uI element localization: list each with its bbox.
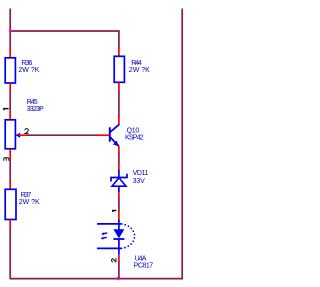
wire: top horizontal from junction to right column (10, 30, 120, 32)
transistor Q10 base bar (109, 127, 111, 141)
zener diode VD11 pin 1 (red) (118, 164, 120, 171)
node junction dot top-left (9, 29, 12, 32)
wire: R45 to R37 (9, 160, 11, 184)
svg-text:2W ?K: 2W ?K (18, 67, 39, 74)
svg-text:2W ?K: 2W ?K (19, 199, 40, 206)
zener diode VD11 top lead (blue) (118, 170, 120, 178)
wire: Q10 emitter to VD11 (118, 153, 120, 164)
optocoupler U4A LED triangle (filled) (113, 229, 124, 238)
wire: left rail bottom vertical (9, 227, 11, 279)
svg-text:KSP42: KSP42 (125, 135, 144, 142)
potentiometer R45 pin 3 (red) (9, 149, 11, 160)
optocoupler U4A pin 2 (red) (118, 255, 120, 262)
optocoupler U4A right arc (121, 224, 135, 249)
svg-text:Q10: Q10 (127, 127, 140, 134)
optocoupler U4A pin number 2 (111, 258, 115, 262)
wire: R44 to Q10 collector (118, 90, 120, 117)
zener diode VD11 pin 2 (red) (118, 192, 120, 199)
svg-text:VD11: VD11 (133, 170, 149, 177)
optocoupler U4A emission arrow lower (103, 236, 107, 239)
svg-text:2W ?K: 2W ?K (129, 67, 150, 74)
potentiometer R45 pin 2 wire (red, from arrow) (19, 134, 28, 136)
transistor Q10 collector pin (red) (118, 117, 120, 125)
svg-text:33V: 33V (133, 178, 145, 185)
optocoupler U4A pin number 1 (112, 211, 116, 213)
wire: VD11 to opto LED (118, 199, 120, 212)
svg-text:U4A: U4A (135, 255, 147, 262)
node junction dot bottom (opto pin 2 to rail) (117, 277, 120, 281)
transistor Q10 emitter diagonal (110, 137, 119, 146)
optocoupler U4A LED bottom lead (blue) (118, 239, 120, 255)
potentiometer R45 pin number 3 (4, 158, 9, 161)
transistor Q10 collector diagonal (110, 124, 119, 132)
zener diode VD11 anode triangle (112, 178, 126, 186)
resistor R44 pin 2 (bottom, red) (118, 82, 120, 91)
transistor Q10 emitter pin (red) (118, 146, 120, 154)
potentiometer R45 pin number 1 (3, 109, 9, 111)
resistor R36 pin 1 (top, red) (9, 50, 11, 58)
resistor R44 pin 1 (top, red) (118, 48, 120, 56)
wire: right column drop from top horizontal (118, 31, 120, 49)
wire: opto pin 2 to bottom rail (118, 261, 120, 278)
zener diode VD11 bottom lead (blue) (118, 186, 120, 192)
resistor R37 pin 2 (bottom, red) (9, 220, 11, 228)
resistor R44 body (114, 56, 124, 82)
resistor R37 body (5, 189, 16, 219)
wire: wiper to transistor base (27, 134, 98, 136)
svg-text:PC817: PC817 (134, 263, 154, 270)
resistor R36 body (5, 58, 15, 83)
wire: R36 to R45 (9, 91, 11, 111)
optocoupler U4A LED top lead (blue) (118, 220, 120, 230)
optocoupler U4A pin 1 (red) (118, 212, 120, 220)
potentiometer R45 pin number 2 (25, 129, 29, 134)
potentiometer R45 body (5, 120, 15, 149)
optocoupler U4A emission arrow upper (103, 232, 107, 235)
transistor Q10 emitter arrowhead (113, 141, 119, 147)
transistor Q10 base pin (red) (98, 134, 110, 136)
wire: left rail top vertical (9, 9, 11, 51)
optocoupler U4A top outline line (97, 223, 121, 225)
resistor R37 pin 1 (top, red) (9, 183, 11, 190)
wire: right edge vertical rail (181, 9, 183, 280)
svg-text:3323P: 3323P (27, 106, 45, 113)
optocoupler U4A LED cathode bar (113, 238, 124, 240)
potentiometer R45 wiper arrow (16, 133, 21, 138)
potentiometer R45 pin 1 (red) (9, 110, 11, 120)
svg-text:R45: R45 (27, 99, 38, 106)
zener diode VD11 cathode bar with wings (111, 174, 127, 182)
resistor R36 pin 2 (bottom, red) (9, 83, 11, 91)
svg-text:R44: R44 (131, 60, 142, 67)
optocoupler U4A bottom outline line (97, 247, 121, 249)
wire: bottom horizontal rail (10, 278, 183, 280)
